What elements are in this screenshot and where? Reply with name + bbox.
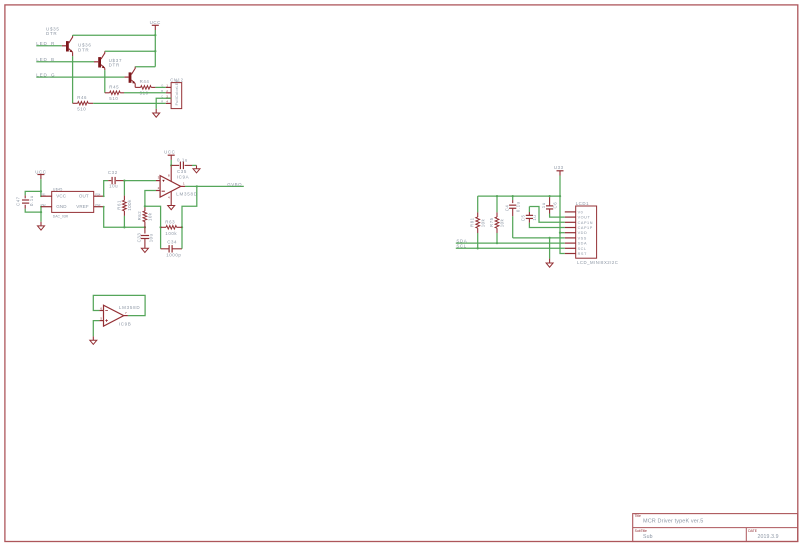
svg-text:B: B: [161, 89, 163, 93]
svg-text:LED_B: LED_B: [36, 57, 55, 62]
svg-text:LM358D: LM358D: [119, 305, 141, 310]
svg-text:UCC: UCC: [164, 150, 175, 155]
svg-text:LCD_MINI8X2I2C: LCD_MINI8X2I2C: [577, 260, 618, 265]
svg-text:R: R: [161, 100, 163, 104]
svg-text:DTR: DTR: [109, 63, 120, 68]
svg-text:RST: RST: [578, 252, 587, 256]
svg-text:510: 510: [109, 96, 118, 101]
svg-text:C34: C34: [167, 240, 177, 245]
svg-text:R44: R44: [140, 79, 150, 84]
svg-text:MCR Driver typeK ver.5: MCR Driver typeK ver.5: [643, 519, 703, 525]
svg-text:R63: R63: [165, 220, 175, 225]
svg-text:SDA: SDA: [578, 242, 587, 246]
svg-text:DTR: DTR: [78, 48, 89, 53]
svg-text:VCC: VCC: [56, 194, 67, 199]
svg-text:CAP1P: CAP1P: [578, 226, 593, 230]
svg-text:LM358D: LM358D: [176, 192, 198, 197]
svg-text:1u: 1u: [541, 202, 546, 208]
svg-text:P$3: P$3: [95, 203, 101, 207]
svg-text:R75: R75: [489, 217, 494, 227]
svg-text:10u: 10u: [109, 184, 118, 189]
svg-text:R62: R62: [137, 211, 142, 221]
svg-text:P$1: P$1: [41, 192, 47, 196]
svg-text:VOUT: VOUT: [578, 216, 591, 220]
svg-text:R61: R61: [116, 200, 121, 210]
svg-text:LED_G: LED_G: [36, 73, 55, 78]
svg-text:LCD1: LCD1: [576, 201, 590, 206]
svg-text:R45: R45: [109, 84, 119, 89]
svg-text:U$45: U$45: [53, 187, 63, 191]
svg-text:10k: 10k: [148, 212, 153, 221]
svg-text:UCC: UCC: [35, 169, 46, 174]
svg-text:G: G: [161, 84, 163, 88]
svg-text:DATE: DATE: [748, 529, 758, 533]
svg-text:V0: V0: [578, 210, 584, 214]
svg-text:IC9A: IC9A: [177, 175, 189, 180]
svg-text:0.1u: 0.1u: [516, 201, 521, 212]
svg-text:P$4: P$4: [95, 192, 101, 196]
svg-text:C35: C35: [177, 169, 187, 174]
svg-text:SubTitle: SubTitle: [635, 529, 647, 533]
svg-text:VREF: VREF: [76, 204, 89, 209]
svg-text:VDD: VDD: [578, 231, 588, 235]
svg-text:CAP1N: CAP1N: [578, 221, 593, 225]
svg-text:Title: Title: [635, 514, 641, 518]
svg-text:100k: 100k: [165, 231, 177, 236]
svg-text:0.1u: 0.1u: [177, 157, 188, 162]
svg-text:1u: 1u: [532, 215, 537, 221]
svg-text:P$2: P$2: [41, 203, 47, 207]
svg-text:10k: 10k: [500, 218, 505, 227]
svg-text:1000p: 1000p: [166, 252, 181, 257]
svg-text:SCL: SCL: [456, 244, 466, 249]
svg-text:C33: C33: [137, 233, 142, 243]
svg-text:OUT: OUT: [79, 194, 89, 199]
svg-text:SCL: SCL: [578, 247, 587, 251]
svg-text:FullColorLED: FullColorLED: [175, 79, 179, 105]
svg-text:100k: 100k: [127, 199, 132, 211]
svg-text:10k: 10k: [480, 218, 485, 227]
svg-text:0.1u: 0.1u: [29, 195, 34, 206]
svg-text:10u: 10u: [148, 233, 153, 242]
svg-text:2019.3.9: 2019.3.9: [758, 534, 779, 540]
svg-text:IC9B: IC9B: [119, 322, 131, 327]
svg-text:UCC: UCC: [150, 20, 161, 25]
svg-text:510: 510: [77, 107, 86, 112]
svg-text:GND: GND: [56, 204, 67, 209]
svg-text:C32: C32: [108, 170, 118, 175]
svg-text:LED_R: LED_R: [36, 41, 55, 46]
svg-text:U33: U33: [554, 165, 564, 170]
svg-text:R46: R46: [77, 95, 87, 100]
svg-text:C4: C4: [504, 205, 509, 212]
svg-text:C6: C6: [553, 202, 558, 209]
svg-text:GVBO: GVBO: [227, 182, 242, 187]
svg-text:C47: C47: [15, 196, 20, 206]
svg-text:VSS: VSS: [578, 236, 587, 240]
svg-text:DAC_03R: DAC_03R: [53, 214, 69, 218]
svg-text:Sub: Sub: [643, 534, 653, 540]
svg-text:C5: C5: [521, 214, 526, 221]
svg-text:DTR: DTR: [46, 31, 57, 36]
svg-text:R81: R81: [470, 217, 475, 227]
